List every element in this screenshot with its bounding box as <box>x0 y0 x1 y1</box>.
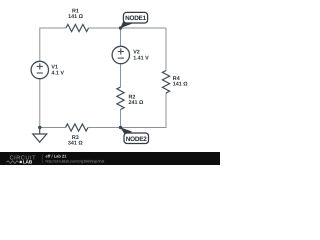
footer logo resistor zigzag <box>6 161 18 164</box>
wire middle branch lower (R2 bottom to node2 junction) <box>120 110 122 128</box>
wire bottom-left (R3 left to ground junction) <box>40 127 66 129</box>
junction ground dot <box>38 126 41 129</box>
footer logo square <box>20 161 22 163</box>
wire right branch upper <box>165 28 167 71</box>
voltage source V2 <box>112 46 129 63</box>
node NODE1 bubble <box>123 12 147 23</box>
resistor R4 <box>162 71 169 94</box>
wire top-left run (left branch top + top wire to R1) <box>40 28 66 61</box>
svg-text:241 Ω: 241 Ω <box>129 100 144 106</box>
wire top middle (R1 right to node1 junction to right corner) <box>89 27 167 29</box>
wire middle branch mid (V2 bottom to R2 top) <box>120 64 122 87</box>
wire middle branch upper (node1 junction to V2 top) <box>120 28 122 46</box>
svg-text:1.41 V: 1.41 V <box>133 56 149 62</box>
resistor R2 <box>117 87 124 110</box>
svg-text:eff / Lab 21: eff / Lab 21 <box>46 153 68 158</box>
svg-text:141 Ω: 141 Ω <box>173 82 188 88</box>
svg-text:4.1 V: 4.1 V <box>51 71 64 77</box>
svg-text:141 Ω: 141 Ω <box>68 14 83 20</box>
ground <box>33 128 47 143</box>
junction node1 dot <box>119 26 122 29</box>
svg-text:NODE1: NODE1 <box>125 15 146 22</box>
svg-text:341 Ω: 341 Ω <box>68 140 83 146</box>
wire left branch lower (V1 bottom to ground junction) <box>39 79 41 128</box>
resistor R3 <box>66 124 89 131</box>
node NODE2 bubble <box>124 133 149 144</box>
footer bar <box>0 152 220 165</box>
svg-text:http://circuitlab.com/c/g26693: http://circuitlab.com/c/g26693yp/2v8 <box>46 160 105 164</box>
voltage source V1 <box>31 61 48 78</box>
svg-text:NODE2: NODE2 <box>126 136 147 143</box>
junction node2 dot <box>119 126 122 129</box>
footer divider <box>41 154 43 163</box>
node NODE2 pointer <box>120 127 132 136</box>
wire right branch lower <box>88 93 166 128</box>
node NODE1 pointer <box>120 19 132 29</box>
svg-text:LAB: LAB <box>23 160 33 165</box>
resistor R1 <box>66 24 89 31</box>
